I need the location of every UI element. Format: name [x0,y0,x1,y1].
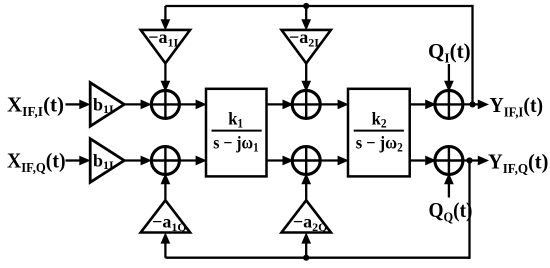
summing junction S3Q [435,147,463,175]
wire: k1 block to second summer (I row) [267,100,293,108]
wire: second summer to k2 block (I row) [320,100,347,108]
junction dot: output Y_IF,I feedback tap [469,101,475,107]
amplifier b1I [90,83,124,127]
svg-text:YIF,I(t): YIF,I(t) [490,95,544,120]
wire: -a1Q to first summer Q [161,174,169,200]
svg-text:XIF,Q(t): XIF,Q(t) [7,150,66,175]
wire: Q_I to output summer I [445,64,453,91]
wire: top feedback bus [161,5,472,105]
node X_IF,I(t) input label [7,93,64,120]
summing junction S3I [435,90,463,118]
block U2: k2/(s - jw2) [348,89,410,177]
wire: output summer to Y_IF,I [463,100,488,108]
junction dot: bottom bus tap to a2Q [303,255,309,261]
wire: output summer to Y_IF,Q [463,156,488,164]
amplifier -a1Q [141,200,190,232]
svg-text:s − jω1: s − jω1 [213,132,259,154]
wire: k2 block to output summer (I row) [410,100,436,108]
summing junction S2Q [292,147,320,175]
wire: second summer to k2 block (Q row) [320,156,347,164]
node Y_IF,Q(t) output label [488,151,548,176]
summing junction S1I [151,90,179,118]
node Q_Q(t) input [429,200,473,225]
svg-text:QQ(t): QQ(t) [429,200,473,225]
junction dot: top bus tap to a2I [303,3,309,9]
wire: k1 block to second summer (Q row) [267,156,293,164]
summing junction S2I [292,90,320,118]
wire: k2 block to output summer (Q row) [410,156,436,164]
node X_IF,Q(t) input label [7,150,66,175]
amplifier -a2I [282,30,331,63]
svg-text:−a1Q: −a1Q [152,211,187,234]
block U1: k1/(s - jw1) [206,89,267,177]
svg-text:YIF,Q(t): YIF,Q(t) [488,151,548,176]
junction dot: output Y_IF,Q feedback tap [466,157,472,163]
wire: X_IF,I input arrow [66,100,90,108]
summing junction S1Q [151,147,179,175]
wire: b1Q output to first summer [124,156,151,164]
amplifier -a2Q [282,200,331,232]
wire: first summer to k block (Q row) [179,156,205,164]
svg-text:b1I: b1I [93,94,114,116]
wire: b1I output to first summer [124,100,151,108]
node Y_IF,I(t) output label [490,95,544,120]
svg-text:QI(t): QI(t) [428,39,471,66]
svg-text:−a2Q: −a2Q [293,211,328,234]
wire: -a2I to second summer I [302,63,310,90]
amplifier -a1I [141,30,190,63]
wire: X_IF,Q input arrow [66,156,90,164]
wire: -a1I to first summer I [161,63,169,90]
amplifier b1Q [90,139,124,183]
wire: -a2Q to second summer Q [302,174,310,200]
wire: Q_Q to output summer Q [445,174,453,197]
svg-text:XIF,I(t): XIF,I(t) [7,93,64,120]
svg-text:s − jω2: s − jω2 [356,133,403,155]
wire: bottom feedback bus [161,161,469,259]
svg-text:b1I: b1I [93,151,114,173]
wire: first summer to k block (I row) [179,100,205,108]
